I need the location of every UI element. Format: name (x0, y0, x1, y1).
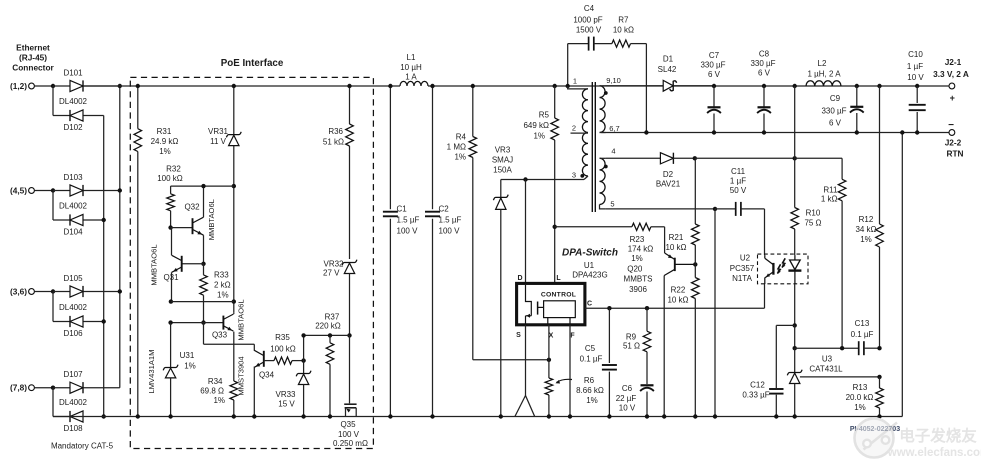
svg-text:330 µF: 330 µF (750, 59, 775, 68)
svg-text:L1: L1 (407, 53, 416, 62)
diode D1 SL42 (606, 55, 714, 92)
terminal J2-2 (945, 120, 964, 159)
svg-text:SL42: SL42 (658, 65, 677, 74)
resistor R5 649k (523, 86, 558, 283)
svg-text:Q32: Q32 (184, 203, 200, 212)
wire VR31 to Q33 collector (232, 184, 236, 312)
wire S pin with tent (515, 325, 535, 417)
svg-text:DL4002: DL4002 (59, 97, 88, 106)
terminal (3,6) (10, 287, 53, 297)
svg-text:6 V: 6 V (829, 119, 842, 128)
svg-text:20.0 kΩ: 20.0 kΩ (846, 393, 874, 402)
resistor R37 220k (315, 313, 341, 419)
svg-text:3906: 3906 (629, 285, 647, 294)
svg-text:D105: D105 (63, 274, 83, 283)
svg-text:R31: R31 (157, 127, 172, 136)
resistor R36 51k (323, 84, 353, 259)
svg-text:24.9 kΩ: 24.9 kΩ (151, 137, 179, 146)
svg-text:(RJ-45): (RJ-45) (19, 53, 47, 63)
svg-text:R11: R11 (823, 186, 838, 195)
svg-text:10 µH: 10 µH (400, 63, 422, 72)
svg-text:10 kΩ: 10 kΩ (613, 26, 634, 35)
inductor L1 (400, 53, 428, 86)
svg-text:0.250 mΩ: 0.250 mΩ (333, 439, 368, 448)
wire bias node (693, 156, 843, 160)
svg-text:Q31: Q31 (163, 273, 179, 282)
resistor R4 1M (447, 84, 477, 360)
svg-text:电子发烧友: 电子发烧友 (899, 426, 977, 445)
svg-text:D2: D2 (663, 170, 674, 179)
svg-text:9,10: 9,10 (606, 76, 621, 85)
svg-text:649 kΩ: 649 kΩ (523, 121, 549, 130)
diode D104 (53, 214, 104, 236)
svg-text:MMBTAO6L: MMBTAO6L (207, 199, 216, 240)
svg-text:U2: U2 (740, 254, 751, 263)
svg-text:100 kΩ: 100 kΩ (157, 174, 183, 183)
svg-text:N1TA: N1TA (732, 274, 753, 283)
svg-text:Q34: Q34 (259, 371, 275, 380)
wire pin 5 return (606, 207, 718, 419)
svg-text:150A: 150A (493, 166, 512, 175)
svg-text:MMBTAO6L: MMBTAO6L (150, 244, 159, 285)
diode D101 (53, 69, 83, 92)
wire feedback ground tie (900, 130, 904, 416)
svg-text:R36: R36 (328, 127, 343, 136)
resistor R10 75 (791, 158, 822, 255)
positive bus (upper diode outputs) (118, 84, 122, 388)
diode D2 BAV21 (606, 153, 695, 189)
svg-text:C10: C10 (908, 50, 923, 59)
svg-text:RTN: RTN (946, 149, 963, 159)
svg-text:330 µF: 330 µF (821, 107, 846, 116)
wire D105 output to positive bus (84, 291, 120, 293)
svg-text:1 kΩ: 1 kΩ (821, 195, 838, 204)
svg-text:0.1 µF: 0.1 µF (851, 330, 874, 339)
wire C pin (585, 307, 765, 309)
diode D107 (53, 370, 83, 393)
svg-text:−: − (948, 120, 954, 131)
svg-text:11 V: 11 V (210, 137, 227, 146)
transistor Q32 MMBTAO6L (168, 184, 216, 264)
wire opto emitter to C pin (764, 284, 766, 308)
svg-text:220 kΩ: 220 kΩ (315, 322, 341, 331)
transformer bias winding 4-5 (600, 147, 616, 209)
resistor R21 10k (665, 158, 699, 264)
svg-text:1%: 1% (217, 291, 229, 300)
svg-text:U3: U3 (822, 355, 833, 364)
svg-text:J2-2: J2-2 (945, 138, 962, 148)
svg-text:J2-1: J2-1 (945, 57, 962, 67)
svg-text:10 kΩ: 10 kΩ (665, 243, 686, 252)
svg-text:Mandatory CAT-5: Mandatory CAT-5 (51, 442, 114, 451)
svg-text:R22: R22 (671, 286, 686, 295)
svg-text:(1,2): (1,2) (10, 81, 27, 91)
svg-text:R35: R35 (275, 333, 290, 342)
svg-text:Ethernet: Ethernet (16, 43, 50, 53)
wire Q31 emitter to Q33 collector column (171, 301, 234, 303)
svg-text:BAV21: BAV21 (656, 180, 681, 189)
svg-text:5: 5 (610, 200, 614, 209)
wire X pin (548, 325, 550, 360)
svg-text:R5: R5 (539, 111, 550, 120)
svg-text:1 A: 1 A (405, 73, 417, 82)
part number overlay (850, 426, 900, 433)
transformer core (592, 82, 595, 212)
capacitor C13 0.1uF (793, 319, 882, 355)
svg-text:100 V: 100 V (397, 227, 419, 236)
wire F pin to rail (568, 325, 572, 419)
resistor R35 100k (264, 333, 306, 364)
svg-text:R4: R4 (456, 133, 467, 142)
svg-text:C1: C1 (397, 205, 408, 214)
svg-text:6 V: 6 V (758, 69, 771, 78)
bottom rail (primary return) (53, 416, 902, 418)
terminal (4,5) (10, 186, 53, 196)
svg-text:Connector: Connector (12, 63, 54, 73)
Ethernet connector title (12, 43, 54, 73)
wire D101 output to positive bus (84, 85, 120, 87)
svg-text:51 Ω: 51 Ω (623, 342, 640, 351)
svg-text:C6: C6 (622, 384, 633, 393)
svg-text:4: 4 (611, 147, 615, 156)
transistor Q31 MMBTAO6L (150, 228, 206, 304)
svg-text:15 V: 15 V (278, 400, 295, 409)
svg-text:R12: R12 (859, 215, 874, 224)
svg-text:1%: 1% (184, 362, 196, 371)
wire opto LED cathode down (793, 284, 797, 328)
zener VR33 15V (275, 361, 311, 419)
PoE Interface dashed boundary (130, 77, 373, 448)
svg-text:Q35: Q35 (340, 420, 356, 429)
negative bus (lower diode outputs) (102, 116, 106, 419)
svg-text:Q33: Q33 (212, 331, 228, 340)
wire input junction (1,2) (51, 84, 55, 116)
svg-text:51 kΩ: 51 kΩ (323, 138, 344, 147)
wire input junction (7,8) (51, 386, 55, 417)
svg-text:10 V: 10 V (619, 404, 636, 413)
output return rail (601, 132, 949, 134)
svg-text:F: F (570, 333, 575, 340)
wire output sense drop (793, 84, 797, 159)
svg-text:U31: U31 (180, 351, 195, 360)
terminal (1,2) (10, 81, 53, 91)
svg-text:R13: R13 (853, 383, 868, 392)
svg-text:330 µF: 330 µF (700, 61, 725, 70)
svg-text:DPA423G: DPA423G (572, 271, 607, 280)
svg-text:1500 V: 1500 V (576, 26, 602, 35)
resistor R6 8.66k trim (545, 360, 604, 419)
terminal (7,8) (10, 383, 53, 393)
svg-text:R9: R9 (626, 333, 637, 342)
svg-text:www.elecfans.com: www.elecfans.com (887, 447, 981, 459)
svg-text:(4,5): (4,5) (10, 186, 27, 196)
part number PI-4052-022703 (850, 426, 900, 433)
svg-text:2 kΩ: 2 kΩ (214, 281, 231, 290)
svg-text:SMAJ: SMAJ (492, 156, 513, 165)
diode D104 label DL4002 (59, 201, 88, 210)
resistor R31 24.9k (134, 84, 178, 419)
svg-text:PoE Interface: PoE Interface (221, 58, 284, 69)
svg-text:PC357: PC357 (730, 264, 755, 273)
svg-text:1.5 µF: 1.5 µF (439, 216, 462, 225)
capacitor C12 0.33uF (742, 325, 794, 418)
svg-text:C9: C9 (830, 94, 841, 103)
svg-text:1: 1 (573, 77, 577, 86)
svg-text:C8: C8 (759, 50, 770, 59)
capacitor C8 330uF (750, 50, 775, 135)
svg-text:C7: C7 (709, 51, 720, 60)
svg-text:R37: R37 (325, 313, 340, 322)
svg-text:L: L (556, 275, 561, 282)
svg-text:C2: C2 (439, 205, 450, 214)
wire D103 output to positive bus (84, 190, 120, 192)
resistor R12 34k (855, 84, 883, 348)
inductor L2 (806, 59, 841, 86)
op-amp U1 DPA-Switch DPA423G block (516, 248, 618, 340)
diode D102 (53, 110, 104, 132)
svg-text:100 kΩ: 100 kΩ (270, 345, 296, 354)
PoE Interface title (221, 58, 284, 69)
svg-text:D106: D106 (63, 329, 83, 338)
resistor R23 174k (553, 223, 665, 263)
svg-text:1.5 µF: 1.5 µF (397, 216, 420, 225)
svg-text:VR33: VR33 (275, 390, 296, 399)
capacitor C1 1.5uF (383, 84, 420, 419)
svg-text:27 V: 27 V (323, 269, 340, 278)
diode D103 (53, 173, 83, 196)
decorative watermark (not labelled further) (855, 419, 981, 459)
svg-text:2: 2 (572, 124, 576, 133)
svg-text:75 Ω: 75 Ω (804, 219, 821, 228)
svg-text:1%: 1% (454, 153, 466, 162)
svg-text:CONTROL: CONTROL (541, 291, 576, 298)
svg-text:R33: R33 (214, 271, 229, 280)
svg-text:PI-4052-022703: PI-4052-022703 (850, 426, 900, 433)
svg-text:(7,8): (7,8) (10, 383, 27, 393)
wire input junction (3,6) (51, 289, 55, 321)
svg-text:MMST3904: MMST3904 (237, 356, 246, 395)
svg-text:Q20: Q20 (627, 265, 643, 274)
svg-text:R7: R7 (618, 16, 629, 25)
svg-text:8.66 kΩ: 8.66 kΩ (576, 386, 604, 395)
svg-text:D103: D103 (63, 173, 83, 182)
svg-text:DPA-Switch: DPA-Switch (562, 248, 618, 259)
svg-text:100 V: 100 V (439, 227, 461, 236)
optocoupler U2 PC357N1TA (730, 254, 808, 285)
capacitor C6 22uF (616, 384, 654, 419)
TVS VR3 SMAJ150A (492, 146, 513, 419)
capacitor C2 1.5uF (425, 84, 461, 419)
top rail (positive) (84, 85, 950, 87)
svg-text:3: 3 (572, 170, 576, 179)
svg-text:100 V: 100 V (338, 430, 360, 439)
svg-text:DL4002: DL4002 (59, 398, 88, 407)
svg-text:CAT431L: CAT431L (809, 365, 843, 374)
resistor R32 100k (157, 165, 234, 228)
svg-text:C13: C13 (855, 319, 870, 328)
wire snubber to pin 6,7 (644, 44, 648, 135)
svg-text:R34: R34 (208, 377, 223, 386)
svg-text:L2: L2 (818, 59, 827, 68)
shunt regulator U3 CAT431L (787, 348, 881, 418)
svg-text:D101: D101 (63, 69, 83, 78)
svg-text:D102: D102 (63, 123, 83, 132)
svg-text:D: D (517, 275, 522, 282)
svg-text:6,7: 6,7 (609, 124, 619, 133)
svg-text:C12: C12 (750, 381, 765, 390)
svg-text:VR31: VR31 (208, 127, 229, 136)
resistor R13 20k (846, 377, 884, 419)
svg-text:(3,6): (3,6) (10, 287, 27, 297)
svg-text:0.1 µF: 0.1 µF (580, 355, 603, 364)
zener VR31 11V (208, 84, 241, 186)
svg-text:R23: R23 (630, 235, 645, 244)
capacitor C5 0.1uF (580, 306, 617, 419)
capacitor C9 330uF (821, 84, 863, 135)
svg-text:3.3 V, 2 A: 3.3 V, 2 A (933, 69, 969, 79)
Mandatory CAT-5 note (51, 442, 114, 451)
terminal J2-1 (933, 57, 969, 103)
wire C11 to opto collector (764, 209, 766, 255)
transistor Q20 MMBTS3906 (624, 253, 698, 419)
svg-text:U1: U1 (584, 261, 595, 270)
wire D107 output jog to positive bus (84, 387, 120, 389)
resistor R7 10k (594, 16, 647, 48)
resistor R11 1k (821, 158, 846, 348)
capacitor C7 330uF (700, 51, 725, 135)
diode D106 label DL4002 (59, 303, 88, 312)
svg-text:C4: C4 (584, 4, 595, 13)
svg-text:1%: 1% (586, 396, 598, 405)
svg-text:VR32: VR32 (323, 260, 344, 269)
diode D102 label DL4002 (59, 97, 88, 106)
svg-text:+: + (950, 93, 955, 103)
diode D106 (53, 316, 104, 338)
svg-text:1%: 1% (860, 235, 872, 244)
svg-text:S: S (516, 332, 521, 339)
svg-text:1%: 1% (533, 132, 545, 141)
svg-text:D107: D107 (63, 370, 83, 379)
diode D108 on bottom rail (53, 411, 83, 433)
svg-text:6 V: 6 V (708, 70, 721, 79)
svg-text:C5: C5 (585, 344, 596, 353)
capacitor C10 1uF (907, 50, 926, 135)
svg-text:R6: R6 (584, 376, 595, 385)
resistor R34 69.8 (200, 377, 237, 419)
svg-text:LMV431A1M: LMV431A1M (147, 350, 156, 394)
diode D108 label DL4002 (59, 398, 88, 407)
capacitor C4 1000pF (568, 4, 603, 86)
svg-text:1 µH, 2 A: 1 µH, 2 A (807, 70, 841, 79)
transistor Q33 MMBTAO6L (168, 299, 245, 381)
svg-text:1%: 1% (854, 403, 866, 412)
wire drain (pin 3) (501, 176, 588, 283)
svg-text:1 µF: 1 µF (907, 62, 923, 71)
svg-text:D1: D1 (663, 55, 674, 64)
svg-text:D108: D108 (63, 424, 83, 433)
svg-text:DL4002: DL4002 (59, 201, 88, 210)
svg-text:1 µF: 1 µF (730, 177, 746, 186)
svg-text:22 µF: 22 µF (616, 394, 637, 403)
wire X-pin sense (473, 358, 551, 362)
svg-text:1%: 1% (213, 396, 225, 405)
resistor R9 51 (623, 306, 651, 384)
svg-text:MMBTAO6L: MMBTAO6L (237, 299, 246, 340)
svg-text:R10: R10 (806, 209, 821, 218)
resistor R22 10k (667, 264, 699, 418)
svg-text:MMBTS: MMBTS (624, 275, 653, 284)
svg-text:69.8 Ω: 69.8 Ω (200, 387, 224, 396)
svg-text:R32: R32 (166, 165, 181, 174)
wire input junction (4,5) (51, 188, 55, 220)
svg-text:DL4002: DL4002 (59, 303, 88, 312)
svg-text:C11: C11 (731, 167, 746, 176)
svg-text:10 V: 10 V (907, 73, 924, 82)
svg-text:VR3: VR3 (495, 146, 511, 155)
capacitor C11 1uF (715, 167, 765, 216)
transformer primary winding pins 1-3 (553, 77, 589, 180)
svg-text:0.33 µF: 0.33 µF (742, 391, 769, 400)
svg-text:50 V: 50 V (730, 186, 747, 195)
svg-text:34 kΩ: 34 kΩ (855, 225, 876, 234)
svg-text:1000 pF: 1000 pF (573, 16, 602, 25)
transistor Q34 MMST3904 (204, 323, 275, 419)
resistor R33 2k (200, 264, 231, 323)
svg-text:R21: R21 (669, 233, 684, 242)
svg-text:C: C (587, 301, 592, 308)
MOSFET Q35 (333, 404, 368, 448)
shunt ref U31 LMV431A1M (147, 323, 196, 419)
zener VR32 27V (323, 260, 357, 336)
svg-text:1%: 1% (159, 147, 171, 156)
transformer secondary winding 9,10-6,7 (600, 76, 621, 133)
svg-text:174 kΩ: 174 kΩ (628, 245, 654, 254)
svg-text:1 MΩ: 1 MΩ (447, 143, 466, 152)
svg-text:D104: D104 (63, 228, 83, 237)
wire gate node (301, 333, 351, 403)
svg-text:1%: 1% (631, 254, 643, 263)
svg-text:10 kΩ: 10 kΩ (667, 296, 688, 305)
diode D105 (53, 274, 83, 297)
